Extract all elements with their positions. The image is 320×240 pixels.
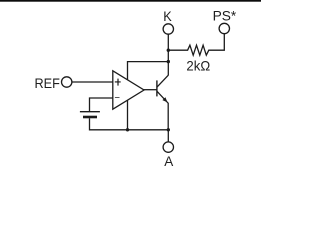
svg-text:2kΩ: 2kΩ [186, 59, 210, 74]
svg-text:REF: REF [35, 76, 60, 91]
svg-text:A: A [164, 154, 174, 169]
svg-text:K: K [163, 9, 172, 24]
svg-text:PS*: PS* [213, 9, 237, 24]
